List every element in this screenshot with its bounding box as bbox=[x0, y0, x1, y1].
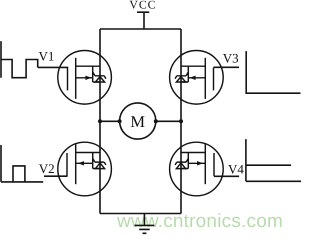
wire right bus bbox=[180, 29, 182, 214]
channel bar V4 bbox=[204, 144, 206, 185]
waveform V1 gate signal bbox=[1, 41, 38, 78]
wire left bus bbox=[99, 29, 101, 214]
substrate lead V4 bbox=[188, 162, 205, 164]
body diode link V3 bbox=[181, 66, 188, 82]
arrow V1 bbox=[85, 76, 91, 80]
channel bar V2 bbox=[75, 144, 77, 185]
junction motor left terminal bbox=[118, 119, 122, 123]
envelope circle V1 bbox=[58, 51, 112, 105]
svg-text:V2: V2 bbox=[39, 161, 55, 176]
channel bar V3 bbox=[204, 58, 206, 99]
svg-text:M: M bbox=[130, 112, 145, 131]
body diode link V1 bbox=[93, 66, 100, 82]
substrate lead V1 bbox=[76, 77, 93, 79]
wire top rail bbox=[100, 28, 181, 30]
motor M bbox=[120, 103, 156, 139]
gate bar V4 bbox=[213, 153, 215, 176]
envelope circle V4 bbox=[170, 142, 224, 196]
transistor V4 bbox=[170, 142, 224, 196]
junction motor right terminal bbox=[154, 119, 158, 123]
drain lead V4 bbox=[181, 152, 205, 154]
junction right bus node bbox=[179, 119, 183, 123]
ground bbox=[135, 214, 155, 234]
wire V1 gate bbox=[38, 66, 68, 68]
transistor V3 bbox=[170, 51, 224, 105]
wire V3 gate bbox=[214, 66, 240, 68]
substrate lead V3 bbox=[188, 77, 205, 79]
transistor V2 bbox=[58, 142, 112, 196]
body diode link V2 bbox=[93, 153, 100, 169]
substrate lead V2 bbox=[76, 162, 93, 164]
wire motor right lead bbox=[156, 120, 181, 122]
wire bottom rail bbox=[100, 213, 181, 215]
wire V2 gate bbox=[44, 175, 68, 177]
gate bar V3 bbox=[213, 67, 215, 90]
body diode triangle V2 bbox=[95, 163, 104, 169]
drain lead V3 bbox=[181, 65, 205, 67]
body diode cathode bar V1 bbox=[95, 76, 106, 79]
gate bar V2 bbox=[66, 153, 68, 176]
waveform V2 gate signal bbox=[1, 145, 43, 182]
gate bar V1 bbox=[67, 67, 69, 90]
body diode cathode bar V4 bbox=[175, 162, 186, 165]
svg-text:V4: V4 bbox=[228, 162, 244, 177]
drain lead V2 bbox=[76, 152, 100, 154]
body diode cathode bar V2 bbox=[95, 162, 106, 165]
envelope circle V3 bbox=[170, 51, 224, 105]
junction left bus node bbox=[98, 119, 102, 123]
power VCC symbol bbox=[137, 12, 149, 29]
body diode triangle V3 bbox=[176, 77, 185, 82]
transistor V1 bbox=[58, 51, 112, 105]
body diode cathode bar V3 bbox=[175, 76, 186, 79]
arrow V3 bbox=[189, 76, 195, 80]
waveform V4 gate signal bbox=[246, 139, 301, 181]
wire V4 gate bbox=[214, 175, 239, 177]
body diode triangle V4 bbox=[176, 163, 185, 169]
svg-text:V1: V1 bbox=[39, 48, 55, 63]
channel bar V1 bbox=[75, 58, 77, 99]
drain lead V1 bbox=[76, 65, 100, 67]
arrow V4 bbox=[197, 161, 203, 165]
envelope circle V2 bbox=[58, 142, 112, 196]
svg-text:V3: V3 bbox=[223, 50, 239, 65]
waveform V3 gate signal bbox=[246, 51, 300, 93]
svg-text:VCC: VCC bbox=[129, 0, 156, 12]
wire motor left lead bbox=[100, 120, 120, 122]
body diode triangle V1 bbox=[95, 77, 104, 82]
body diode link V4 bbox=[181, 153, 188, 169]
arrow V2 bbox=[78, 161, 84, 165]
